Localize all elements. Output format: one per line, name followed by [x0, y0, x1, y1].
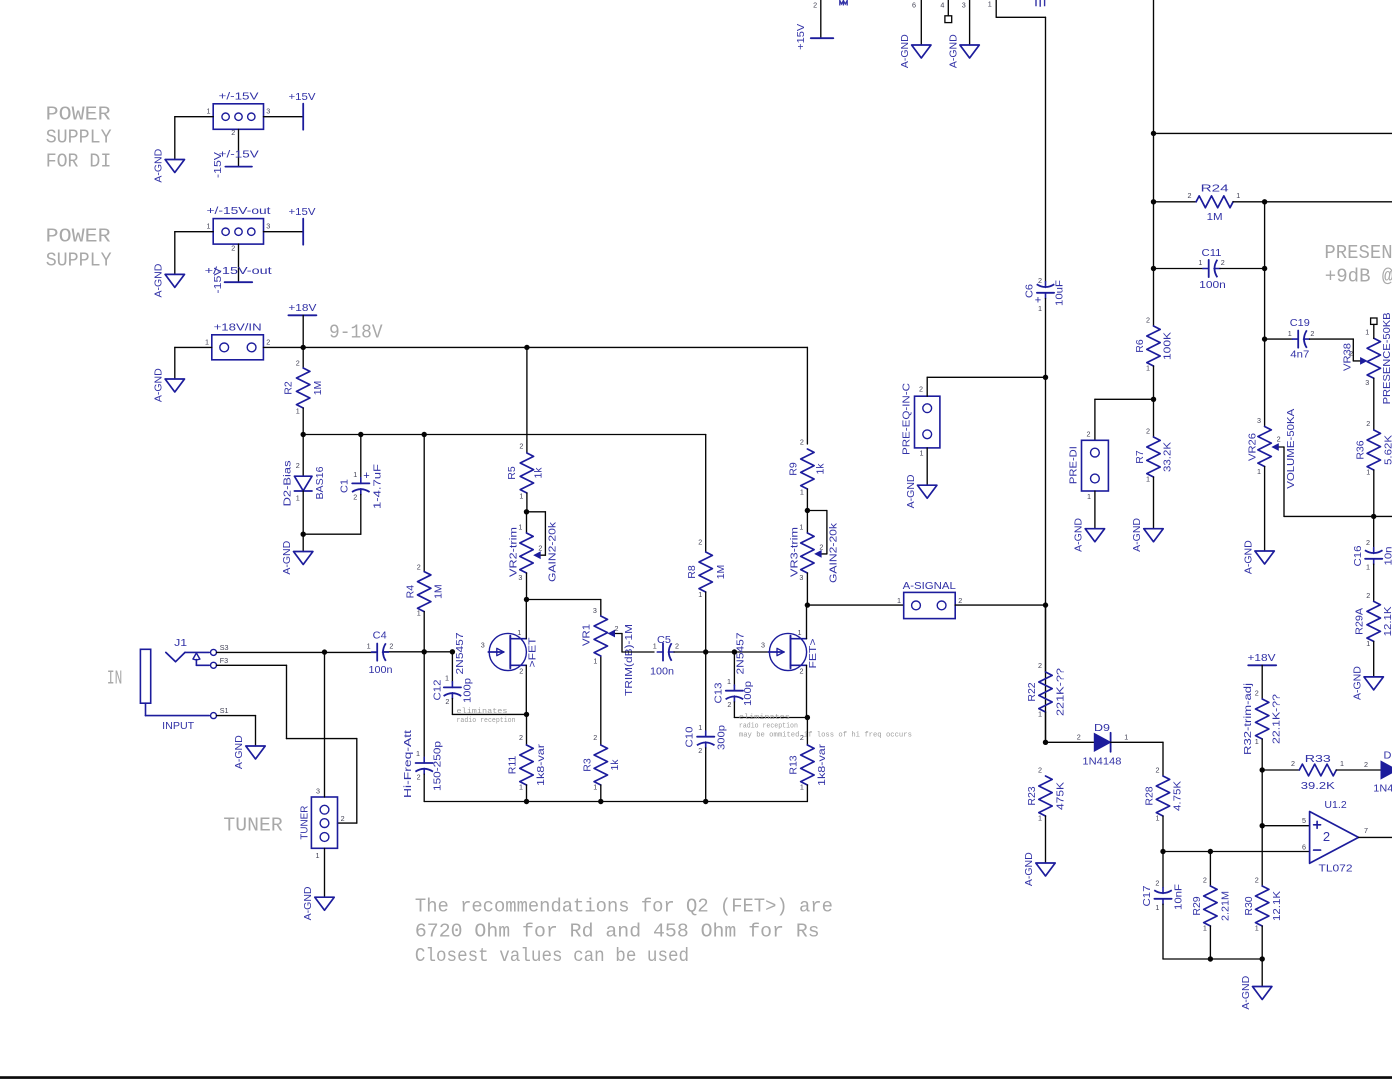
svg-text:1: 1	[296, 493, 300, 502]
svg-text:C13: C13	[712, 682, 724, 703]
resistor R28	[1156, 765, 1170, 822]
resistor R2	[296, 359, 310, 416]
svg-text:VR3-trim: VR3-trim	[789, 527, 801, 577]
svg-text:2: 2	[417, 562, 421, 571]
svg-text:A-GND: A-GND	[1023, 852, 1035, 886]
svg-text:10n: 10n	[1382, 546, 1392, 565]
wire C1 pin2 to ground node	[303, 495, 361, 535]
svg-text:100K: 100K	[1162, 332, 1174, 360]
svg-text:2: 2	[800, 438, 804, 447]
svg-text:+/-15V: +/-15V	[219, 90, 259, 102]
svg-text:2: 2	[231, 243, 235, 252]
wire R6 pin2	[1153, 269, 1155, 327]
power symbol -15V bar (conn1)	[225, 166, 252, 168]
svg-text:1: 1	[593, 783, 597, 792]
wire C17 pin2	[1162, 852, 1164, 888]
resistor R23	[1038, 765, 1052, 822]
svg-text:A-GND: A-GND	[152, 148, 164, 182]
wire VR38 pin1 stub	[1373, 325, 1375, 339]
wire VR38 pin3 to R36	[1373, 378, 1375, 430]
svg-text:221K-??: 221K-??	[1055, 668, 1067, 716]
svg-text:TUNER: TUNER	[223, 815, 283, 837]
svg-text:1M: 1M	[1207, 211, 1223, 223]
junction at rail / R5	[524, 345, 529, 350]
svg-text:1: 1	[1146, 475, 1150, 484]
svg-text:>FET: >FET	[526, 637, 538, 668]
svg-text:5.62K: 5.62K	[1382, 435, 1392, 465]
wire R24 pin2	[1154, 201, 1197, 203]
svg-text:2N5457: 2N5457	[454, 632, 466, 674]
svg-text:1: 1	[519, 492, 523, 501]
wire VR2 pin3 down	[526, 573, 528, 600]
wire PRE-DI pin1 to ground	[1094, 491, 1096, 529]
svg-text:radio reception: radio reception	[739, 723, 798, 731]
junction R24 right	[1262, 199, 1267, 204]
resistor R5	[519, 442, 533, 501]
svg-text:1: 1	[1365, 328, 1369, 337]
svg-text:2: 2	[1323, 829, 1330, 844]
svg-text:R9: R9	[788, 462, 800, 476]
svg-text:1: 1	[798, 628, 802, 637]
svg-text:+/-15V: +/-15V	[219, 148, 259, 160]
potentiometer VR2-trim wiper arrow	[537, 554, 545, 556]
wire R29 pin1	[1209, 926, 1211, 959]
wire TUNER pin1 to ground	[324, 848, 326, 897]
junction D2/C1 ground node	[301, 532, 306, 537]
wire gnd node to A-GND	[302, 534, 304, 551]
svg-text:1: 1	[1366, 563, 1370, 572]
svg-text:2: 2	[1255, 688, 1259, 697]
svg-text:+18V: +18V	[1248, 652, 1276, 664]
junction R24 left	[1151, 199, 1156, 204]
svg-text:10uF: 10uF	[1054, 280, 1066, 306]
junction C12/gate	[450, 649, 455, 654]
svg-text:R30: R30	[1243, 896, 1255, 915]
svg-text:3: 3	[266, 221, 270, 230]
wire node to D9	[1046, 741, 1095, 743]
svg-text:R28: R28	[1143, 786, 1155, 805]
svg-text:VR2-trim: VR2-trim	[508, 527, 520, 577]
svg-text:TUNER: TUNER	[299, 805, 311, 839]
wire Q2 drain up	[806, 605, 808, 639]
svg-text:Closest values can be used: Closest values can be used	[415, 945, 689, 967]
wire +18V to rail	[302, 315, 304, 347]
svg-text:+18V/IN: +18V/IN	[214, 322, 262, 334]
svg-text:1M: 1M	[312, 381, 324, 396]
wire Q1 drain up	[525, 600, 527, 639]
wire C11 pin1	[1154, 268, 1204, 270]
connector +/-15V (3-pin)	[213, 104, 263, 130]
svg-text:33.2K: 33.2K	[1162, 442, 1174, 472]
svg-text:R6: R6	[1134, 339, 1146, 353]
svg-text:2: 2	[727, 700, 731, 709]
wire R3 pin1	[600, 785, 602, 802]
svg-text:2: 2	[1077, 733, 1081, 742]
svg-text:Hi-Freq-Att: Hi-Freq-Att	[402, 730, 414, 798]
potentiometer VR38 body	[1367, 338, 1380, 378]
svg-text:4n7: 4n7	[1290, 349, 1309, 361]
svg-text:R11: R11	[507, 756, 519, 775]
svg-text:INPUT: INPUT	[162, 720, 195, 732]
svg-text:1: 1	[416, 749, 420, 758]
wire VR3 bracket	[807, 511, 827, 554]
wire R29A pin1 to ground	[1373, 641, 1375, 677]
wire Hi-Freq-Att pin1	[423, 652, 425, 758]
svg-text:The recommendations for Q2 (FE: The recommendations for Q2 (FET>) are	[415, 896, 833, 918]
svg-text:1: 1	[1203, 924, 1207, 933]
wire C19 pin1	[1265, 338, 1293, 340]
svg-text:FOR DI: FOR DI	[46, 150, 112, 172]
svg-text:1: 1	[1124, 733, 1128, 742]
svg-text:100n: 100n	[369, 664, 393, 676]
wire conn2 pin2 to -15V	[238, 244, 240, 282]
svg-text:2: 2	[675, 641, 679, 650]
svg-text:1M: 1M	[715, 565, 727, 580]
svg-text:2: 2	[1310, 329, 1314, 338]
wire R7 pin2	[1153, 399, 1155, 437]
ground A-GND (D2/C1)	[294, 552, 313, 565]
wire R8 pin1	[705, 592, 707, 652]
wire C19 pin2 to VR38 wiper	[1310, 339, 1354, 361]
svg-text:2: 2	[1146, 315, 1150, 324]
svg-text:9-18V: 9-18V	[329, 322, 383, 344]
wire R36 pin1	[1373, 470, 1375, 516]
power symbol +15V (conn2)	[302, 219, 304, 245]
svg-text:SUPPLY: SUPPLY	[46, 249, 112, 271]
wire R30 pin1	[1261, 926, 1263, 959]
svg-text:3: 3	[761, 641, 765, 650]
wire bottom node to ground	[1261, 959, 1263, 987]
capacitor C11	[1208, 260, 1210, 277]
wire pin6	[1163, 851, 1310, 853]
svg-text:100p: 100p	[742, 681, 754, 706]
svg-text:D9: D9	[1094, 722, 1110, 734]
svg-text:3: 3	[266, 107, 270, 116]
svg-text:eliminates: eliminates	[457, 708, 508, 716]
svg-text:150-250p: 150-250p	[431, 741, 443, 791]
ground A-GND (TUNER)	[315, 897, 334, 910]
wire C10 pin1	[705, 652, 707, 731]
svg-text:2: 2	[1203, 875, 1207, 884]
svg-text:300p: 300p	[715, 725, 727, 750]
wire R32 pin1	[1261, 739, 1263, 770]
svg-text:+15V: +15V	[289, 206, 316, 218]
ground A-GND (conn1)	[165, 160, 184, 173]
junction S3/TUNER	[322, 649, 327, 654]
svg-text:2: 2	[519, 442, 523, 451]
svg-text:1: 1	[897, 596, 901, 605]
wire R32 node down to pin5	[1261, 770, 1263, 826]
svg-text:2: 2	[445, 697, 449, 706]
capacitor Hi-Freq-Att 150-250p	[416, 762, 433, 764]
svg-text:1: 1	[727, 677, 731, 686]
svg-text:1: 1	[1236, 191, 1240, 200]
wire pin1 to C6 column	[996, 0, 1045, 17]
capacitor C19	[1297, 331, 1299, 348]
potentiometer VR1 wiper arrow	[612, 633, 622, 635]
potentiometer VR1 body	[594, 616, 607, 656]
svg-text:R36: R36	[1354, 440, 1366, 459]
svg-text:VOLUME-50KA: VOLUME-50KA	[1285, 409, 1297, 489]
svg-text:A-GND: A-GND	[152, 263, 164, 297]
svg-text:1: 1	[207, 221, 211, 230]
svg-text:GAIN2-20k: GAIN2-20k	[828, 522, 840, 583]
connector J1 input jack	[140, 649, 150, 703]
svg-text:7: 7	[1364, 826, 1368, 835]
junction Q2 source / C13 / R13	[805, 715, 810, 720]
svg-text:2: 2	[417, 772, 421, 781]
svg-text:R23: R23	[1026, 786, 1038, 805]
wire top vertical to R24 node	[1153, 0, 1155, 269]
svg-text:2: 2	[1366, 419, 1370, 428]
connector A-SIGNAL (2-pin)	[904, 592, 956, 618]
wire D2 pin1 to gnd node	[302, 491, 304, 534]
svg-text:A-GND: A-GND	[1131, 518, 1143, 552]
svg-text:PRESENCE: PRESENCE	[1324, 242, 1392, 264]
capacitor C16	[1365, 558, 1382, 560]
wire pin4 stub	[947, 0, 949, 16]
svg-text:2: 2	[1156, 765, 1160, 774]
svg-text:U1.2: U1.2	[1324, 799, 1346, 811]
svg-text:+15V: +15V	[795, 24, 807, 50]
wire R28 pin1	[1162, 816, 1164, 852]
svg-text:3: 3	[593, 606, 597, 615]
ground A-GND (pin6)	[912, 45, 931, 58]
svg-text:2: 2	[519, 667, 523, 676]
resistor R9	[800, 438, 814, 497]
svg-text:1: 1	[698, 723, 702, 732]
ground A-GND (PRE-DI)	[1085, 529, 1104, 542]
svg-text:2: 2	[615, 624, 619, 633]
junction rail y133	[1151, 131, 1156, 136]
resistor R33	[1291, 759, 1344, 776]
svg-text:6: 6	[912, 1, 916, 10]
svg-text:1: 1	[988, 0, 992, 9]
svg-text:1: 1	[353, 470, 357, 479]
svg-text:TRIM(dB)-1M: TRIM(dB)-1M	[623, 624, 635, 696]
svg-text:2: 2	[1277, 435, 1281, 444]
svg-text:A-GND: A-GND	[152, 368, 164, 402]
svg-text:2: 2	[353, 493, 357, 502]
capacitor C12	[444, 686, 461, 688]
svg-text:TL072: TL072	[1319, 862, 1353, 874]
wire VR2 bracket	[527, 512, 546, 555]
wire R5 pin1	[526, 493, 528, 512]
capacitor C6 (polarized 10uF)	[1037, 292, 1054, 294]
svg-text:2: 2	[1221, 258, 1225, 267]
svg-text:1: 1	[1038, 814, 1042, 823]
connector PRE-EQ-IN-C (2-pin)	[915, 396, 940, 448]
svg-text:12.1K: 12.1K	[1382, 606, 1392, 636]
junction R6 / R7 / PRE-DI	[1151, 397, 1156, 402]
ground A-GND (PRE-EQ)	[918, 485, 937, 498]
svg-text:+/-15V-out: +/-15V-out	[207, 205, 271, 217]
junction bottom / R29	[1208, 956, 1213, 961]
wire pin2 to +15V symbol	[820, 0, 822, 38]
svg-text:D2-Bias: D2-Bias	[281, 460, 293, 506]
svg-text:A-GND: A-GND	[899, 34, 911, 68]
wire Hi-Freq-Att pin2 to rail	[424, 774, 807, 801]
svg-text:3: 3	[316, 786, 320, 795]
svg-text:A-SIGNAL: A-SIGNAL	[903, 580, 956, 592]
wire conn1 pin3 to +15V	[264, 116, 304, 118]
resistor R11	[519, 733, 533, 792]
svg-text:1: 1	[519, 783, 523, 792]
wire C17 pin1	[1163, 904, 1262, 959]
svg-text:3: 3	[1365, 378, 1369, 387]
wire C12 pin1	[451, 652, 453, 682]
svg-text:J1: J1	[174, 637, 187, 649]
svg-text:1: 1	[205, 337, 209, 346]
svg-text:BAS16: BAS16	[314, 466, 326, 499]
svg-text:A-GND: A-GND	[1351, 666, 1363, 700]
ground A-GND (conn2)	[165, 274, 184, 287]
junction A-SIGNAL node	[1043, 602, 1048, 607]
svg-text:C5: C5	[657, 634, 671, 646]
wire to VR1 pin3	[527, 600, 601, 617]
svg-text:A-GND: A-GND	[1073, 518, 1085, 552]
diode D2-Bias BAS16	[294, 476, 312, 491]
wire to A-SIGNAL pin1	[807, 604, 903, 606]
svg-text:FET>: FET>	[807, 639, 819, 669]
wire conn2 pin1 to ground	[175, 232, 213, 275]
wire C10 pin2	[705, 748, 707, 802]
junction rail/R11	[524, 799, 529, 804]
wire F3 route to TUNER pin2	[217, 665, 357, 823]
connector +18V/IN (2-pin)	[212, 335, 264, 360]
svg-text:2: 2	[266, 337, 270, 346]
wire VR2 pin1 stub	[526, 512, 528, 533]
svg-text:may be ommited if loss of hi f: may be ommited if loss of hi freq occurs	[739, 732, 912, 740]
svg-text:D1: D1	[1384, 750, 1392, 762]
svg-text:C17: C17	[1141, 885, 1153, 906]
svg-text:2: 2	[538, 543, 542, 552]
svg-text:1k: 1k	[609, 759, 621, 771]
svg-text:A-GND: A-GND	[947, 34, 959, 68]
svg-text:2: 2	[958, 596, 962, 605]
junction R28 / C17 / pin6 wire	[1160, 849, 1165, 854]
junction VR2 / Q1 drain / VR1	[524, 597, 529, 602]
resistor R3	[593, 733, 607, 792]
svg-text:2: 2	[1038, 661, 1042, 670]
svg-text:PRESENCE-50KB: PRESENCE-50KB	[1381, 312, 1392, 404]
ground A-GND (U1.2)	[1253, 987, 1272, 1000]
wire C11 pin2	[1220, 268, 1265, 270]
ground A-GND (VR26)	[1255, 551, 1274, 564]
cut-off label fragment T	[1036, 0, 1045, 7]
svg-text:1: 1	[1155, 903, 1159, 912]
svg-text:2: 2	[341, 814, 345, 823]
wire rail y202 to edge	[1265, 201, 1392, 203]
svg-text:+/-15V-out: +/-15V-out	[205, 265, 272, 277]
potentiometer VR26 body	[1258, 427, 1271, 467]
svg-text:1: 1	[1366, 639, 1370, 648]
svg-text:22.1K-??: 22.1K-??	[1270, 694, 1282, 744]
svg-text:GAIN2-20k: GAIN2-20k	[547, 521, 559, 582]
svg-text:S3: S3	[220, 643, 229, 652]
svg-text:2: 2	[593, 733, 597, 742]
wire R30 pin2	[1261, 826, 1263, 886]
svg-text:C19: C19	[1290, 317, 1310, 329]
connector PRE-DI (2-pin)	[1082, 440, 1109, 491]
wire S1 to ground	[217, 716, 256, 746]
svg-text:+18V: +18V	[288, 302, 316, 314]
wire Q1 source down	[525, 665, 527, 714]
svg-text:A-GND: A-GND	[905, 474, 917, 508]
svg-text:A-GND: A-GND	[302, 886, 314, 920]
svg-text:12.1K: 12.1K	[1271, 891, 1283, 921]
svg-text:1: 1	[316, 851, 320, 860]
svg-text:C12: C12	[431, 679, 443, 700]
svg-text:2: 2	[698, 538, 702, 547]
junction R32 / R33	[1260, 767, 1265, 772]
ground A-GND (R23)	[1036, 863, 1055, 876]
junction Q1 source / C12 / R11	[524, 712, 529, 717]
svg-text:C6: C6	[1024, 284, 1036, 298]
junction pin5 node	[1260, 823, 1265, 828]
svg-text:475K: 475K	[1055, 782, 1067, 810]
junction rail/C10	[703, 799, 708, 804]
svg-text:2: 2	[389, 642, 393, 651]
svg-text:radio reception: radio reception	[457, 717, 516, 725]
wire R23 pin1 to ground	[1045, 816, 1047, 863]
junction C4/R4/Hi-Freq	[422, 649, 427, 654]
junction pin6 wire / R29	[1208, 849, 1213, 854]
svg-text:1: 1	[1288, 329, 1292, 338]
svg-text:C11: C11	[1202, 247, 1222, 259]
wire bias rail	[303, 435, 706, 553]
resistor R22	[1038, 661, 1052, 718]
svg-text:1: 1	[445, 674, 449, 683]
junction bias rail / R4	[422, 432, 427, 437]
svg-text:1: 1	[417, 609, 421, 618]
wire R11 pin2	[526, 714, 528, 745]
transistor Q2 2N5457 (FET)	[761, 628, 807, 676]
resistor R8	[698, 538, 712, 600]
wire pin5	[1262, 825, 1309, 827]
connector +/-15V-out (3-pin)	[213, 219, 263, 245]
svg-text:C16: C16	[1352, 545, 1364, 566]
resistor R32-trim-adj	[1255, 688, 1269, 746]
svg-text:S1: S1	[220, 706, 229, 715]
capacitor C10	[697, 736, 714, 738]
unconnected-pin square marker (pin4)	[945, 16, 952, 23]
svg-text:1: 1	[1257, 467, 1261, 476]
junction bias rail / D2	[301, 432, 306, 437]
wire C13 pin1	[733, 652, 735, 685]
svg-text:A-GND: A-GND	[281, 540, 293, 574]
connector TUNER (3-pin)	[311, 797, 337, 848]
svg-text:4.75K: 4.75K	[1172, 781, 1184, 811]
junction bottom / R30	[1260, 956, 1265, 961]
sheet border bottom bar	[0, 1076, 1392, 1079]
resistor R6	[1146, 315, 1160, 372]
svg-text:2: 2	[1255, 875, 1259, 884]
svg-text:1: 1	[698, 590, 702, 599]
resistor R7	[1146, 426, 1160, 483]
svg-text:2: 2	[231, 128, 235, 137]
svg-text:2N5457: 2N5457	[735, 632, 747, 674]
resistor R29A	[1366, 591, 1380, 648]
power symbol +15V (top edge)	[811, 37, 834, 39]
junction at +18V rail / R2	[301, 345, 306, 350]
svg-text:3: 3	[1257, 416, 1261, 425]
svg-text:R32-trim-adj: R32-trim-adj	[1242, 683, 1254, 755]
svg-text:R33: R33	[1305, 753, 1331, 765]
wire R22 pin1	[1045, 712, 1047, 742]
wire R22 pin2	[1045, 605, 1047, 672]
wire PRE-EQ pin1 to ground	[926, 448, 928, 485]
